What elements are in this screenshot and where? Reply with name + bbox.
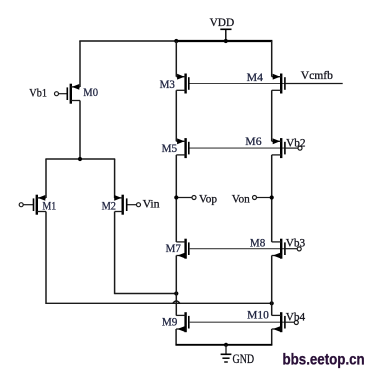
wire M5 drain to M7 drain (Vop node) (175, 155, 177, 242)
node terminal Vop (192, 196, 196, 200)
wire tail node horizontal (45, 158, 115, 160)
transistor M6 (272, 138, 285, 158)
svg-text:M7: M7 (166, 241, 181, 255)
svg-text:Vb2: Vb2 (286, 135, 306, 149)
node junction ground tap (224, 343, 228, 347)
svg-text:M8: M8 (250, 236, 265, 250)
wire M9-M10 gate net (190, 321, 285, 323)
svg-text:Vin: Vin (143, 196, 160, 210)
node terminal Vb3 (297, 247, 301, 251)
svg-text:bbs.eetop.cn: bbs.eetop.cn (283, 351, 365, 368)
svg-text:Vb4: Vb4 (286, 309, 305, 323)
node terminal Vb4 (294, 321, 298, 325)
node junction M1-drain/right-branch (270, 301, 274, 305)
wire left branch rail to M3 (175, 41, 177, 77)
wire ground rail (176, 344, 273, 346)
node junction tail (78, 157, 82, 161)
node M1 gate input terminal (19, 203, 23, 207)
svg-text:M2: M2 (102, 199, 116, 213)
node junction Vop (174, 195, 178, 199)
node terminal Vb1 (55, 92, 59, 96)
wire M5-M6 gate net (190, 147, 285, 149)
node junction VDD-rail/VDD stub (224, 39, 228, 43)
svg-text:M0: M0 (83, 85, 98, 99)
wire M2 gate lead (127, 204, 136, 206)
wire M9 source to ground rail (175, 329, 177, 345)
wire M2 drain drop (114, 212, 116, 295)
wire M1-drain to M8-source cross run (46, 302, 272, 304)
transistor M0 (67, 84, 80, 104)
wire right branch rail to M4 (271, 41, 273, 77)
transistor M4 (272, 74, 285, 94)
wire M1 gate lead (23, 204, 33, 206)
wire VDD rail (176, 40, 272, 42)
node terminal Von (253, 196, 257, 200)
transistor M1 (34, 195, 47, 215)
ground symbol (221, 345, 232, 362)
svg-text:M9: M9 (162, 315, 178, 329)
wire M3-M4 gate net (190, 83, 285, 85)
svg-text:Vcmfb: Vcmfb (301, 68, 333, 82)
wire M4 drain to M6 source (271, 90, 273, 141)
node junction Von (270, 195, 274, 199)
wire M6 drain to M8 drain (Von node) (271, 155, 273, 242)
transistor M2 (114, 195, 127, 215)
wire hop over at left branch (173, 301, 180, 304)
svg-text:M10: M10 (247, 308, 269, 322)
svg-text:Von: Von (232, 191, 250, 205)
wire M0 gate lead (59, 93, 67, 95)
wire M7-M8 gate net (190, 248, 285, 250)
transistor M10 (272, 312, 285, 332)
wire M1 drain drop (45, 212, 47, 305)
wire M3 drain to M5 source (175, 90, 177, 141)
wire M2 source drop (114, 159, 116, 198)
wire M0 drain to tail node (79, 101, 81, 160)
svg-text:M1: M1 (42, 198, 56, 212)
wire Vcmfb lead (286, 83, 343, 85)
wire Vb2 lead (286, 147, 298, 149)
svg-text:Vb3: Vb3 (286, 235, 305, 249)
wire Von tap (257, 197, 272, 199)
svg-text:Vb1: Vb1 (29, 86, 47, 100)
wire M10 source to ground rail (271, 329, 273, 345)
node junction VDD-rail/M3 branch (174, 39, 178, 43)
wire Vb4 lead (286, 321, 295, 323)
wire Vop tap (176, 197, 192, 199)
wire M0-source to VDD rail (79, 40, 176, 42)
svg-text:VDD: VDD (210, 15, 235, 29)
wire M2-drain to M7-source run (115, 293, 177, 295)
wire M0 source to rail (79, 41, 81, 87)
power symbol VDD stub (220, 29, 231, 41)
transistor M5 (176, 138, 189, 158)
transistor M3 (176, 74, 189, 94)
wire M8 source down to M10 drain (271, 256, 273, 316)
svg-text:M4: M4 (247, 70, 263, 84)
transistor M7 (176, 239, 189, 259)
transistor M8 (272, 239, 285, 259)
svg-text:M3: M3 (160, 77, 175, 91)
node terminal Vb2 (298, 146, 302, 150)
svg-text:GND: GND (233, 351, 255, 366)
node terminal Vin (137, 203, 141, 207)
wire M7 source down to M9 drain (175, 256, 177, 316)
svg-text:Vop: Vop (199, 191, 217, 205)
wire M1 source drop (45, 159, 47, 198)
svg-text:M6: M6 (245, 134, 261, 148)
transistor M9 (176, 312, 189, 332)
svg-text:M5: M5 (162, 141, 178, 155)
node junction M2-drain/left-branch (174, 291, 178, 295)
wire Vb3 lead (286, 248, 298, 250)
